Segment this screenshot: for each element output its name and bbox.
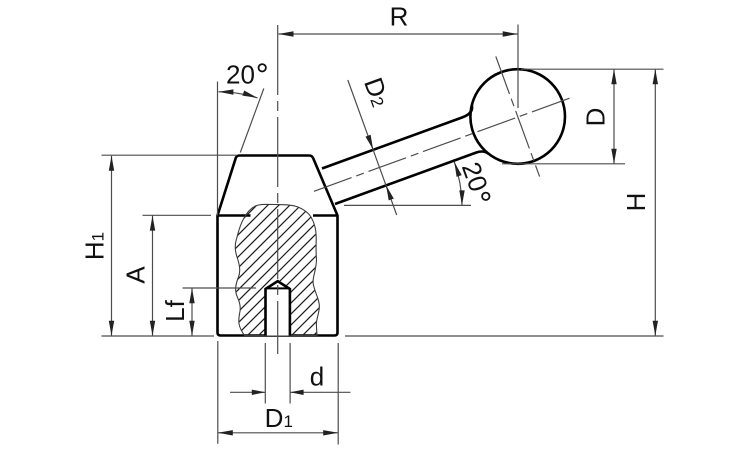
tapped hole thread end line — [266, 287, 290, 289]
svg-text:H: H — [621, 193, 651, 212]
arrow d right — [290, 390, 304, 395]
hub waist edge left segment — [218, 214, 251, 217]
arrow H1 top — [109, 156, 114, 171]
ball knob — [470, 69, 565, 164]
extension line 20-left vertical — [217, 82, 219, 216]
arrow H1 bottom — [109, 321, 114, 336]
extension line ball bottom — [502, 163, 625, 165]
dimension line D — [613, 69, 615, 164]
arrow H top — [653, 69, 658, 84]
hub waist edge right segment — [313, 214, 338, 217]
extension line Lf top — [183, 287, 257, 289]
arrow A bottom — [150, 321, 155, 336]
dimension line Lf — [191, 288, 193, 336]
dimension arc 20-left — [218, 92, 257, 98]
extension line D1 left — [217, 341, 219, 444]
arrow D1 left — [218, 430, 233, 435]
arrow 20-right lower — [459, 190, 464, 205]
dimension line d right part — [290, 391, 350, 393]
arrow 20-right upper — [454, 162, 461, 177]
centerline ball cross axis — [496, 56, 540, 176]
svg-text:Lf: Lf — [160, 299, 190, 321]
arrow Lf top — [189, 288, 194, 303]
arrow d left — [252, 390, 265, 395]
svg-text:20: 20 — [226, 59, 255, 89]
lever arm bottom edge — [335, 151, 489, 204]
dimension line H1 — [111, 156, 113, 336]
extension line body bottom right — [345, 335, 664, 337]
dimension line R — [279, 33, 518, 35]
extension line ball center vertical — [517, 25, 519, 109]
centerline hub vertical axis — [277, 25, 279, 354]
extension line 20-right horizontal — [344, 204, 471, 206]
extension line A top — [143, 214, 212, 216]
dimension line D2 — [348, 80, 397, 215]
extension line D1 right — [337, 343, 339, 445]
arrow D top — [611, 69, 616, 84]
arrow H bottom — [653, 321, 658, 336]
arrow A top — [150, 216, 155, 231]
extension line d right — [289, 343, 291, 404]
hub body outline — [218, 156, 338, 336]
extension line body bottom left — [102, 335, 215, 337]
svg-text:R: R — [390, 2, 409, 32]
arrow D bottom — [611, 149, 616, 164]
extension line 20-left slanted — [240, 89, 263, 153]
arrow R left — [279, 31, 294, 36]
extension line H1 top — [102, 154, 238, 156]
arrow D2 lower — [386, 185, 394, 200]
extension line ball top — [521, 68, 664, 70]
svg-text:A: A — [121, 266, 151, 284]
extension line d left — [264, 343, 266, 404]
dimension arc 20-right — [454, 162, 462, 206]
arrow R right — [503, 31, 518, 36]
dimension line d left part — [230, 391, 265, 393]
dimension line A — [152, 216, 154, 336]
svg-text:D: D — [581, 108, 611, 127]
dimension line H — [654, 69, 656, 336]
arrow 20-left b — [242, 91, 257, 98]
centerline arm axis — [314, 97, 572, 191]
break line wavy boundary — [235, 204, 319, 335]
arrow D2 upper — [366, 135, 374, 150]
arrow 20-left a — [218, 89, 233, 94]
dimension line D1 — [218, 432, 338, 434]
arrow D1 right — [323, 430, 338, 435]
lever arm top edge — [322, 105, 472, 168]
tapped hole outline — [266, 281, 290, 335]
tapped hole interior — [266, 281, 290, 335]
arrow Lf bottom — [189, 321, 194, 336]
svg-text:d: d — [310, 362, 324, 392]
